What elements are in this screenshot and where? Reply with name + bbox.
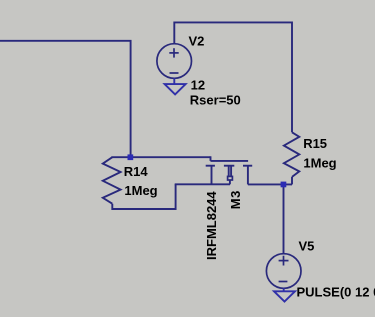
wire R14 bottom to source [112, 184, 175, 209]
wire node B down to V5 [283, 184, 285, 253]
svg-text:V5: V5 [299, 239, 315, 254]
voltage source V2 [157, 44, 192, 79]
ground below V2 [165, 78, 186, 94]
wire gate lead [210, 156, 212, 161]
voltage source V5 [266, 254, 301, 289]
transistor M3 bulk arrowhead [228, 176, 233, 180]
transistor M3 gate bar [211, 160, 249, 162]
wire source run [175, 183, 230, 185]
transistor M3 channel segment drain side [243, 165, 252, 167]
wire top-left horizontal to vertical drop into node A [0, 41, 131, 157]
ground below V5 [274, 288, 295, 301]
svg-text:Rser=50: Rser=50 [190, 93, 241, 108]
resistor R15 [284, 132, 299, 177]
node A junction dot [128, 154, 134, 160]
transistor M3 drain lead [247, 166, 249, 185]
wire top V2 to R15 [174, 22, 292, 132]
transistor M3 bulk stub [229, 180, 231, 184]
svg-text:R14: R14 [124, 164, 149, 179]
svg-text:V2: V2 [189, 33, 205, 48]
node B junction dot [281, 182, 287, 188]
svg-text:PULSE(0 12 0.01 1m 1m 1 2): PULSE(0 12 0.01 1m 1m 1 2) [297, 285, 375, 300]
transistor M3 source lead [211, 166, 213, 185]
svg-text:M3: M3 [228, 190, 243, 209]
svg-text:1Meg: 1Meg [303, 156, 336, 171]
resistor R14 [103, 157, 121, 204]
transistor M3 bulk arrow lines [228, 166, 230, 176]
svg-text:R15: R15 [303, 136, 327, 151]
wire drain to R15 bottom [248, 183, 292, 185]
wire R14 top / gate run [111, 156, 210, 158]
transistor M3 channel segment source side [206, 165, 215, 167]
svg-text:IRFML8244: IRFML8244 [204, 191, 219, 260]
svg-text:1Meg: 1Meg [124, 183, 157, 198]
transistor M3 channel segment middle [224, 165, 234, 167]
wire R15 bottom lead [291, 177, 293, 185]
svg-text:12: 12 [191, 77, 205, 92]
